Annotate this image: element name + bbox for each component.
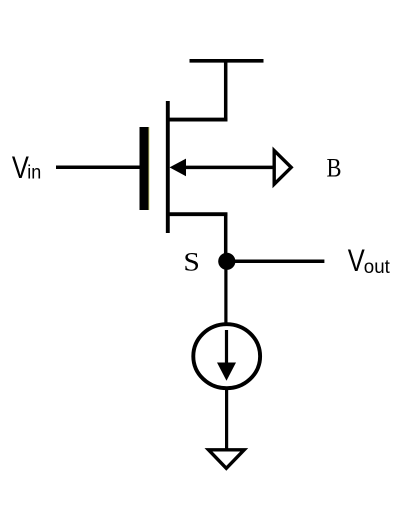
svg-text:S: S [183, 248, 200, 277]
wire drain [166, 59, 227, 121]
label Vin [12, 149, 41, 185]
transistor M1 channel [166, 101, 170, 233]
wire source [166, 213, 227, 263]
current source I1 [193, 324, 260, 388]
node S junction dot [218, 253, 235, 270]
wire node to current source [224, 262, 227, 323]
wire current source to ground [225, 389, 228, 449]
wire output [227, 259, 324, 263]
transistor M1 gate bar [140, 127, 151, 210]
bulk terminal B arrow [274, 151, 291, 185]
wire body [184, 166, 274, 170]
ground [209, 450, 245, 469]
svg-text:in: in [27, 162, 41, 184]
svg-text:B: B [327, 154, 342, 183]
svg-text:V: V [348, 242, 365, 278]
power rail [190, 59, 264, 63]
transistor M1 body arrow [170, 159, 187, 177]
svg-text:out: out [364, 256, 391, 278]
wire gate input [56, 166, 140, 170]
label Vout [348, 242, 391, 278]
